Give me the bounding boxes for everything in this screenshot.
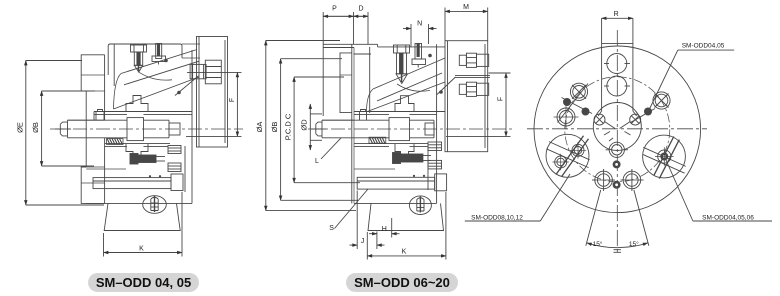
callout SM-ODD08,10,12 [465,174,570,222]
callout SM-ODD04,05,06 [666,160,772,222]
svg-text:15°: 15° [593,240,603,248]
base bar middle view [357,177,435,189]
face vertical centerline [616,30,618,253]
plate bolt lower middle view [455,76,490,97]
label L with leader [315,138,341,165]
column hole lower [604,76,630,96]
base bar end block left view [171,174,183,191]
mounting screw B middle view [412,44,426,68]
angle fan left line [586,190,601,246]
body top edge middle view [323,44,445,113]
dimension H [369,218,400,249]
svg-text:K: K [402,249,407,256]
svg-text:D: D [358,6,363,13]
dimension J [350,191,385,250]
angle fan arc [587,243,648,248]
mounting screw A middle view [394,45,410,84]
jaw oval window left view [143,196,167,214]
side stud B left view [168,163,181,172]
right jaw steep hatch [654,137,680,179]
svg-text:R: R [614,11,619,18]
dimension F left view [186,72,242,136]
svg-text:ØE: ØE [16,122,25,133]
draw-bar shaft middle view [311,120,389,138]
svg-text:ØB: ØB [270,122,279,133]
wedge slant lines middle view [366,58,445,112]
dimension ØE line [26,61,104,206]
upper-left X bolt circle [570,83,587,100]
upper-right dark pin [644,108,652,116]
body left edge middle view [352,44,354,203]
inner vertical of top cap [113,44,115,86]
lower bolt circle right [621,169,644,191]
left jaw steep hatch [556,136,589,177]
upper-left dark pin B [582,108,590,116]
angle fan right line [634,190,649,246]
centerline middle view [308,128,512,130]
wedge pin dot lower [177,91,181,95]
horizontal clamp screw (dark) middle view [393,153,432,164]
hub circle [593,103,641,151]
bolt pitch circle (dash-dot) [565,77,670,182]
svg-text:15°: 15° [629,240,639,248]
upper-left cluster slant line [558,84,589,123]
svg-text:F: F [229,98,236,102]
svg-text:K: K [139,246,144,253]
left jaw shallow hatch [546,142,589,168]
top jaw column [598,18,636,116]
skirt middle view [368,203,444,230]
label S with leader [329,189,368,232]
hub inner dashes [604,132,631,142]
dimension P and D [323,12,368,116]
dimension N [403,24,437,47]
lower tee block middle view [395,144,414,160]
dark ring B center [613,181,621,189]
wedge pin dot upper middle [428,54,432,58]
dimension F middle view [446,73,511,136]
svg-text:N: N [417,21,422,28]
svg-text:SM-ODD04,05,06: SM-ODD04,05,06 [702,215,754,222]
dark ring A center [613,160,621,168]
centerline left view [50,128,243,130]
dark ring A hole [615,163,618,166]
dark ring B hole [615,183,618,186]
left jaw bolt lower [553,154,569,170]
hub lines middle view [322,112,445,147]
left jaw circle [546,134,589,177]
jaw oval window middle view [409,196,431,215]
upper-right cluster slant line [631,109,656,123]
face outer circle [534,46,701,213]
jaw screw in oval left view [151,196,158,212]
lower bolt circle left [592,169,615,191]
lower tee block left view [126,144,148,160]
skirt left view [104,203,180,230]
svg-text:ØB: ØB [31,122,40,133]
body core verticals left view [94,55,105,204]
right jaw shallow hatch [643,147,686,173]
hub flank bolt left [594,114,615,128]
left flange middle view [340,53,352,113]
dimension M [445,8,488,41]
svg-text:H: H [382,226,387,233]
dimension ØB line (left view) [42,91,95,166]
base bar left view [93,178,171,189]
body right edge under plate [185,50,192,203]
small vertical screw above shaft left view [96,110,104,121]
upper-right X bolt circle [653,92,670,109]
dimension ØB middle [281,59,358,201]
svg-text:L: L [315,158,319,165]
dimension ØA [266,41,356,211]
face horizontal centerline [527,128,707,130]
hub flank bolt right [620,114,641,128]
right plate left view [197,37,228,148]
svg-text:S: S [329,225,334,232]
draw-bar shaft left view [55,120,127,138]
plate bolt left view [190,60,221,84]
jaw screw in oval middle view [417,197,424,213]
body left flange upper [81,55,104,91]
side stud B middle view [428,160,442,169]
svg-text:P.C.D C: P.C.D C [283,113,292,140]
pilot circle below hub [606,142,629,157]
name pill SM-ODD 06~20 [346,273,458,292]
shaft collar block middle view [389,118,434,141]
small vertical screw middle view [360,110,367,121]
body left edge [81,75,104,183]
dimension R [602,17,633,19]
wedge pin dot upper [164,59,168,63]
hub top lines left view [68,112,193,121]
jaw tee block middle view [395,96,414,112]
svg-text:ØD: ØD [300,119,309,131]
body right edge middle view [428,44,437,203]
upper-left dark pin A [563,98,571,106]
side stud A left view [168,146,181,154]
svg-text:P: P [332,6,337,13]
link lines body to plate [182,44,200,58]
body bottom edge middle view [354,169,437,203]
top cap block left view [108,44,182,75]
horizontal clamp screw (dark) left view [130,154,165,165]
bar screw dots left view [149,175,161,177]
name pill SM-ODD 04, 05 [88,273,199,292]
svg-text:SM-ODD08,10,12: SM-ODD08,10,12 [471,215,523,222]
right jaw bolt [655,147,674,166]
right jaw circle [643,135,686,178]
dimension K left view [104,192,183,257]
column hole upper [604,54,630,74]
hub bottom lines left view [105,144,170,147]
dimension ØD [310,104,322,150]
svg-text:SM-ODD04,05: SM-ODD04,05 [682,43,725,50]
wedge slant lines left view [114,50,200,110]
dimension K middle view [367,192,446,260]
jaw tee block left view [126,96,148,112]
angle fan center ticks [614,250,622,253]
left jaw bolt upper [570,142,586,158]
svg-text:F: F [497,97,504,101]
svg-text:ØA: ØA [255,122,264,133]
svg-text:J: J [361,238,365,245]
body left flange lower [81,167,104,203]
right plate middle view [445,41,488,152]
upper-left cluster cross slant [562,98,593,114]
svg-text:M: M [463,4,469,11]
plate bolt upper middle view [459,53,488,67]
dimension PCD C [294,77,360,183]
side stud A middle view [428,142,442,151]
shaft collar block left view [127,118,180,141]
wedge pin dot lower middle [439,90,443,94]
base bar end block middle view [435,174,447,191]
mounting screw A (vertical, left view) [131,45,147,72]
preload spring middle view [369,137,386,143]
body bottom edge left view [86,169,192,203]
mounting screw B (vertical, left view) [152,44,166,65]
callout SM-ODD04,05 top [650,43,735,110]
bar screw dots middle view [413,175,425,177]
upper-left plus bolt circle [554,105,579,130]
preload spring (hatched) left view [107,139,124,145]
